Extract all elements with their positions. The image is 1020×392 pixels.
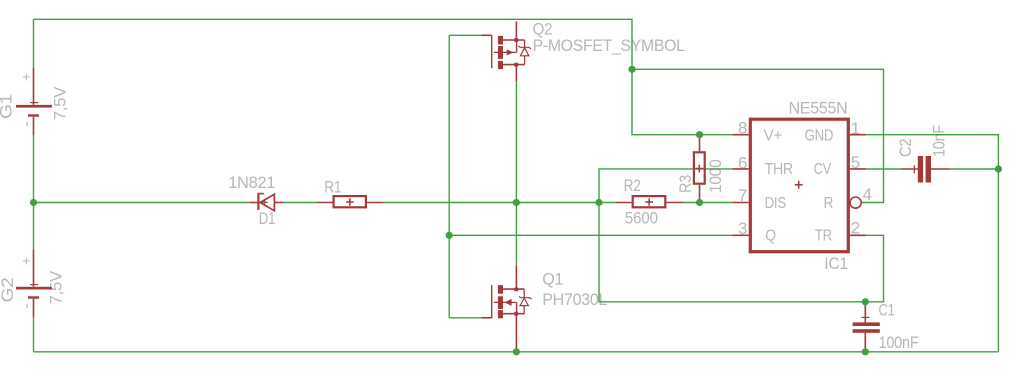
svg-text:Q1: Q1	[542, 270, 563, 289]
svg-text:R1: R1	[324, 178, 341, 197]
svg-text:R: R	[824, 195, 834, 212]
wire D1 to R1	[283, 202, 317, 204]
wire ground right riser to pin 1	[866, 135, 999, 352]
svg-text:D1: D1	[259, 209, 276, 228]
svg-text:DIS: DIS	[765, 195, 786, 212]
svg-text:R3: R3	[676, 175, 695, 193]
svg-text:V+: V+	[764, 127, 783, 144]
wire V+ branch to pin 8	[632, 69, 732, 134]
wire node to C1 and TR pin 2	[599, 203, 884, 302]
resistor R2 labels	[624, 176, 658, 227]
svg-text:G2: G2	[0, 278, 17, 303]
wire CV pin 5 to C2	[866, 168, 902, 170]
junction half-bridge mid node	[513, 199, 520, 206]
svg-text:THR: THR	[765, 161, 793, 178]
svg-text:+: +	[22, 68, 30, 84]
wire Q output pin 3	[449, 234, 732, 236]
capacitor C1 labels	[879, 301, 919, 353]
diode D1 labels	[228, 173, 275, 228]
svg-text:R2: R2	[624, 176, 641, 195]
transistor Q2 labels	[533, 19, 685, 55]
svg-text:CV: CV	[814, 161, 832, 178]
wire Q2 drain to Q1 drain	[515, 82, 517, 266]
junction battery mid node	[30, 199, 37, 206]
svg-text:NE555N: NE555N	[789, 99, 848, 118]
svg-text:4: 4	[863, 185, 872, 204]
junction gate bus and Q output	[446, 232, 453, 239]
svg-text:100nF: 100nF	[879, 333, 919, 352]
wire G2 bottom lead	[33, 317, 35, 352]
wire THR pin 6 to node	[599, 169, 732, 203]
svg-text:C1: C1	[879, 301, 895, 320]
diode D1	[249, 193, 283, 211]
junction R3 bottom DIS node	[696, 199, 703, 206]
svg-text:1000: 1000	[706, 160, 725, 194]
IC1 pin numbers	[738, 119, 872, 239]
svg-text:P-MOSFET_SYMBOL: P-MOSFET_SYMBOL	[533, 36, 685, 55]
junction C1 bottom on ground rail	[862, 348, 869, 355]
resistor R3 labels	[676, 160, 725, 194]
svg-text:TR: TR	[815, 227, 832, 244]
svg-text:C2: C2	[896, 139, 915, 157]
capacitor C2	[901, 156, 949, 183]
wire G1 bottom lead	[33, 135, 35, 202]
transistor Q2 P-MOSFET	[481, 22, 531, 82]
wire G1 top lead	[33, 19, 35, 67]
battery G2	[16, 250, 52, 318]
wire Q1 gate	[449, 317, 481, 319]
wire top supply rail	[34, 19, 633, 69]
wire V+ to reset pin 4	[632, 69, 884, 202]
svg-text:1N821: 1N821	[228, 173, 275, 192]
junction C2 right on ground riser	[995, 165, 1002, 172]
wire R2 to pin 7	[683, 202, 732, 204]
junction R3 top on V+ wire	[696, 131, 703, 138]
battery G1	[16, 68, 52, 136]
junction C1 top	[862, 298, 869, 305]
svg-text:IC1: IC1	[824, 254, 848, 273]
wire Q2 gate	[449, 34, 481, 36]
wire R1 to R2	[383, 202, 616, 204]
wire gate bus vertical	[448, 35, 450, 318]
transistor Q1 N-MOSFET	[481, 266, 531, 351]
battery G2 labels	[0, 252, 66, 308]
svg-text:G1: G1	[0, 94, 16, 119]
capacitor C2 labels	[896, 125, 949, 157]
junction V+ split	[628, 66, 635, 73]
junction Q1 source on ground rail	[513, 348, 520, 355]
wire mid rail battery to D1	[34, 202, 250, 204]
resistor R3	[694, 135, 705, 203]
svg-text:10nF: 10nF	[929, 125, 948, 157]
svg-text:7,5V: 7,5V	[50, 86, 69, 120]
svg-text:PH7030L: PH7030L	[542, 290, 607, 309]
svg-text:5600: 5600	[625, 208, 658, 227]
IC1 pin names	[764, 127, 834, 244]
op-amp U1 IC1 NE555N labels	[789, 99, 848, 274]
wire C2 to ground riser	[949, 168, 998, 170]
wire G2 top lead	[33, 203, 35, 250]
svg-text:Q: Q	[765, 227, 776, 244]
junction THR node	[595, 199, 602, 206]
capacitor C1	[853, 302, 880, 351]
resistor R2	[616, 196, 683, 207]
op-amp U1 IC1 NE555N box	[732, 119, 865, 252]
resistor R1	[317, 196, 384, 207]
wire bottom ground rail	[34, 351, 999, 353]
battery G1 labels	[0, 68, 69, 126]
transistor Q1 labels	[542, 270, 607, 310]
svg-text:GND: GND	[805, 127, 834, 144]
svg-text:+: +	[22, 252, 30, 268]
